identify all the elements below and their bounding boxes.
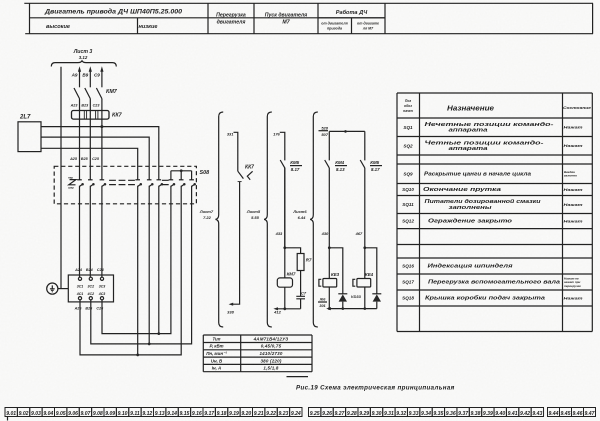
junction branch2 bbox=[283, 246, 286, 249]
motor table row Пн, мин⁻¹ bbox=[206, 351, 283, 356]
node 528/507 bbox=[319, 125, 329, 137]
wire PE/ground lead from sheet 3 bbox=[60, 67, 62, 289]
brace sheet7 (control left) bbox=[216, 112, 224, 327]
relay coil KM7 bbox=[284, 168, 286, 309]
wire phases to motor terminals bbox=[80, 186, 102, 277]
revision ruler strip bbox=[5, 408, 596, 417]
switch row SQ9 bbox=[403, 170, 577, 178]
connector jumper bar (star point) bbox=[171, 171, 192, 180]
wire 2L7 drops join loops bbox=[138, 186, 159, 355]
connector pin at x=191.6 bbox=[189, 180, 196, 187]
motor table row Тип bbox=[213, 336, 289, 341]
node Zh6/301 bbox=[318, 298, 327, 308]
switch row SQ18 bbox=[402, 295, 583, 302]
wire star loop outer (4C1) bbox=[80, 186, 181, 355]
motor table row Uн, В bbox=[211, 358, 282, 363]
wire branch1 upper bbox=[234, 132, 238, 171]
motor terminal box bbox=[68, 275, 113, 302]
wire branch2 bottom bbox=[275, 308, 300, 310]
motor table row Р, кВт bbox=[209, 344, 281, 349]
connector pin at x=101.9 bbox=[100, 180, 107, 187]
contactor KM7 main contacts bbox=[74, 88, 102, 111]
wire branch1 lower bbox=[231, 182, 240, 305]
connector shield jog mark bbox=[68, 176, 76, 190]
stray scan mark bbox=[287, 376, 309, 378]
brace sheet5 bbox=[264, 112, 272, 327]
connector pin at x=137.7 bbox=[135, 180, 142, 187]
resistor R7 bbox=[297, 254, 304, 271]
ruler tick bbox=[7, 417, 9, 421]
switch row SQ12 bbox=[402, 218, 583, 224]
wire phase С9 bbox=[101, 70, 103, 87]
contact KM4 (NO) bbox=[325, 160, 330, 168]
connector S08 dashed outline bbox=[54, 166, 196, 204]
switch row SQ16 bbox=[402, 264, 512, 270]
clutch coil KE4 bbox=[357, 279, 371, 288]
header table frame bbox=[24, 3, 593, 33]
terminal circle bottom x=90.8 bbox=[89, 297, 92, 300]
junction dot phase C to 2L7 bbox=[100, 125, 103, 128]
wire phases KK7 to connector bbox=[80, 119, 102, 180]
switch table frame bbox=[397, 93, 592, 332]
clutch coil KE3 bbox=[323, 279, 337, 288]
wire diode branch 3 bbox=[329, 248, 343, 309]
wire 2L7 winding 1 bbox=[41, 127, 159, 180]
brace sheet6 bbox=[310, 112, 318, 327]
wire branches 3-4 bottom bar bbox=[328, 308, 377, 310]
brace over phase wires (sheet 3) bbox=[51, 61, 116, 67]
contact KM5 branch4 (NO) bbox=[360, 160, 365, 168]
switch row SQ17 bbox=[402, 277, 581, 288]
connector pin at x=79.5 bbox=[77, 180, 84, 187]
connector pin at x=181.2 bbox=[179, 180, 186, 187]
connector pin at x=90.3 bbox=[88, 180, 95, 187]
wire top bar branches 3-4 bbox=[329, 130, 365, 132]
wire phase А9 bbox=[79, 70, 81, 87]
wire phase В9 bbox=[89, 70, 91, 87]
switch row SQ10 bbox=[402, 187, 583, 193]
wire branch2 upper bbox=[280, 132, 285, 160]
wire 2L7 winding 3 bbox=[41, 148, 138, 180]
wire diode branch 4 bbox=[365, 248, 377, 309]
terminal circle bottom x=80.0 bbox=[78, 297, 81, 300]
motor frame ground circle bbox=[47, 283, 69, 294]
connector unused pins bbox=[109, 180, 169, 184]
terminal circle top x=80.0 bbox=[78, 277, 81, 280]
wire branch4 bbox=[364, 131, 366, 308]
diode VD3 bbox=[338, 293, 347, 295]
contact KK7 (thermal relay trip contact) bbox=[238, 171, 253, 181]
terminal circle top x=102.0 bbox=[100, 277, 103, 280]
switch row SQ1 bbox=[403, 122, 583, 134]
wire branch3 bbox=[328, 131, 330, 308]
connector pin at x=158.8 bbox=[157, 180, 164, 187]
switch row SQ11 bbox=[402, 198, 583, 211]
contact KM5 (NO) bbox=[280, 160, 285, 248]
connector pin at x=149.2 bbox=[147, 180, 154, 187]
motor data table bbox=[203, 335, 312, 372]
wire star loop middle (4C2) bbox=[91, 186, 192, 344]
capacitor C7 bbox=[296, 296, 305, 299]
connector pin at x=170.9 bbox=[169, 180, 176, 187]
motor table row Iн, А bbox=[212, 366, 279, 371]
terminal circle bottom x=102.0 bbox=[100, 297, 103, 300]
terminal circle top x=90.8 bbox=[89, 277, 92, 280]
wire 2L7 winding 2 bbox=[41, 137, 149, 180]
switch row SQ2 bbox=[403, 140, 583, 152]
wire snubber branch bbox=[285, 248, 301, 309]
wire star loop inner (4C3) bbox=[102, 186, 171, 334]
diode VD4 bbox=[372, 293, 381, 295]
thermal relay KK7 heater elements bbox=[72, 111, 110, 120]
